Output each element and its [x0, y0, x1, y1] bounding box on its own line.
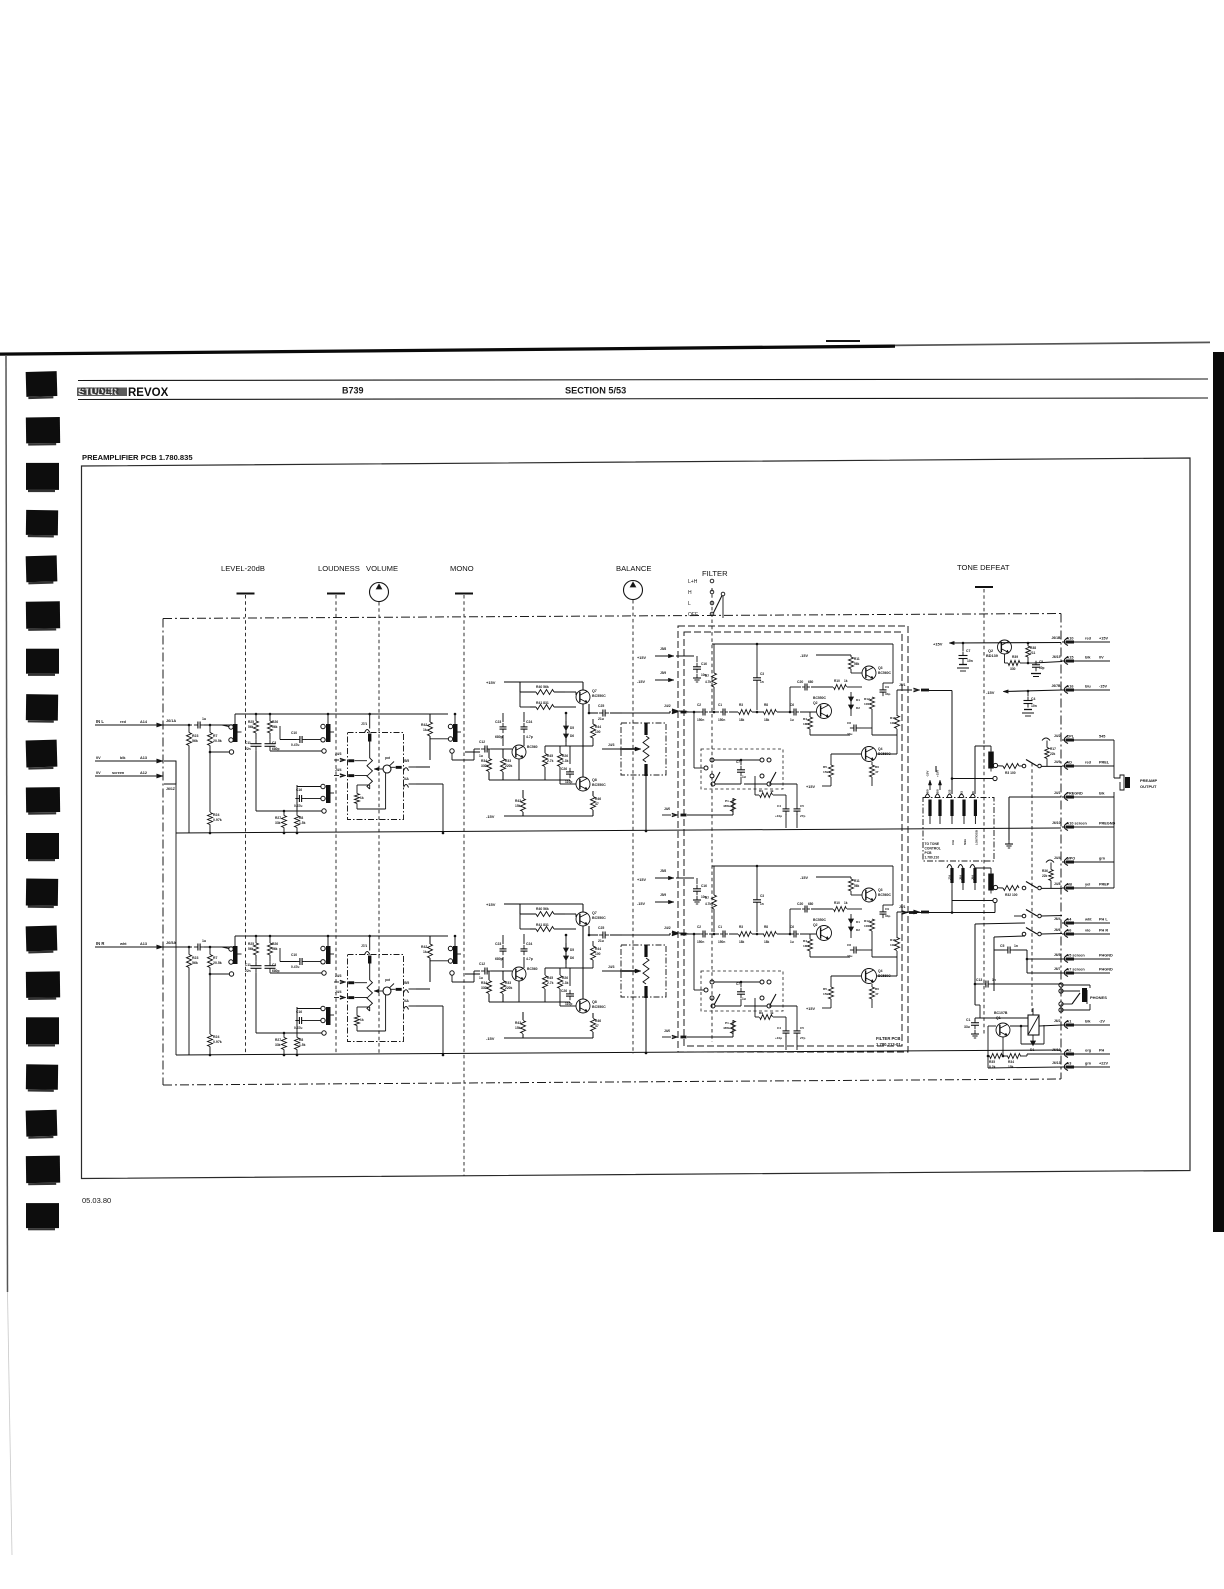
- svg-text:Q2: Q2: [813, 923, 818, 927]
- svg-text:PREGND: PREGND: [1067, 792, 1084, 796]
- svg-text:R25: R25: [248, 720, 254, 724]
- svg-text:J4A: J4A: [403, 777, 410, 781]
- svg-text:A16: A16: [1067, 685, 1074, 689]
- svg-text:18k: 18k: [739, 718, 745, 722]
- svg-text:+15V: +15V: [486, 902, 496, 907]
- svg-text:C6: C6: [971, 791, 975, 795]
- svg-text:27p: 27p: [800, 814, 805, 818]
- svg-text:15k: 15k: [515, 1026, 521, 1030]
- svg-text:C5: C5: [1039, 660, 1043, 664]
- svg-text:C1: C1: [718, 925, 722, 929]
- svg-text:680p: 680p: [272, 747, 280, 751]
- svg-text:1.3k: 1.3k: [562, 759, 569, 763]
- svg-text:R32 100: R32 100: [1005, 893, 1018, 897]
- svg-text:1M: 1M: [803, 944, 808, 948]
- svg-text:R11: R11: [854, 879, 860, 883]
- svg-text:R45: R45: [547, 754, 553, 758]
- svg-text:33p: 33p: [885, 692, 890, 696]
- svg-text:C5: C5: [800, 1026, 804, 1030]
- svg-text:4.7p: 4.7p: [526, 957, 533, 961]
- svg-text:-2V: -2V: [1099, 1020, 1105, 1024]
- svg-text:R41 831: R41 831: [536, 701, 549, 705]
- svg-text:R42: R42: [421, 945, 427, 949]
- svg-text:R6: R6: [875, 987, 879, 991]
- svg-text:C11: C11: [245, 963, 251, 967]
- svg-text:PREP: PREP: [1099, 883, 1110, 887]
- svg-text:0V: 0V: [96, 756, 101, 760]
- svg-text:J4/2: J4/2: [1054, 734, 1061, 738]
- svg-text:J7/1: J7/1: [361, 722, 367, 726]
- svg-text:R23: R23: [192, 734, 198, 738]
- svg-text:C5: C5: [800, 804, 804, 808]
- svg-text:R17: R17: [1050, 747, 1056, 751]
- svg-text:-15V: -15V: [486, 814, 495, 819]
- svg-text:grn: grn: [1099, 857, 1106, 861]
- svg-text:C24: C24: [526, 720, 532, 724]
- svg-text:-15V: -15V: [800, 654, 808, 658]
- svg-text:-15V: -15V: [637, 902, 645, 906]
- svg-text:150n: 150n: [697, 940, 704, 944]
- svg-text:56k: 56k: [854, 884, 860, 888]
- svg-text:C10: C10: [291, 953, 297, 957]
- svg-text:+10p: +10p: [775, 1036, 782, 1040]
- svg-text:R23: R23: [192, 956, 198, 960]
- svg-text:20.5k: 20.5k: [213, 739, 222, 743]
- svg-text:BC550C: BC550C: [592, 694, 606, 698]
- svg-text:100: 100: [595, 952, 601, 956]
- svg-text:R25: R25: [248, 942, 254, 946]
- svg-text:BALANCE: BALANCE: [616, 564, 651, 573]
- svg-text:FILTER PCB: FILTER PCB: [876, 1036, 900, 1041]
- svg-text:56k: 56k: [192, 739, 198, 743]
- svg-text:J5/8: J5/8: [936, 789, 940, 795]
- svg-text:blk: blk: [1099, 792, 1105, 796]
- svg-text:+15V: +15V: [637, 878, 646, 882]
- svg-text:C1: C1: [718, 703, 722, 707]
- svg-text:C16: C16: [296, 788, 302, 792]
- svg-text:R4: R4: [803, 939, 807, 943]
- svg-text:R8: R8: [764, 925, 768, 929]
- svg-text:R3: R3: [739, 925, 743, 929]
- svg-text:R36: R36: [1042, 869, 1048, 873]
- svg-text:C20: C20: [797, 680, 803, 684]
- svg-text:1u: 1u: [742, 775, 746, 779]
- svg-text:R33: R33: [505, 981, 511, 985]
- svg-text:Q7: Q7: [592, 911, 597, 915]
- svg-text:L+H: L+H: [688, 579, 698, 585]
- svg-text:J7/1: J7/1: [361, 944, 367, 948]
- svg-text:AB: AB: [1067, 883, 1073, 887]
- svg-text:1k: 1k: [423, 950, 427, 954]
- svg-text:1u: 1u: [479, 754, 483, 758]
- svg-text:18k: 18k: [764, 940, 770, 944]
- svg-text:05.03.80: 05.03.80: [82, 1196, 111, 1205]
- svg-text:Q8: Q8: [592, 1000, 597, 1004]
- svg-text:BC560: BC560: [527, 745, 538, 749]
- svg-text:+15V: +15V: [933, 642, 943, 647]
- svg-text:J6/2: J6/2: [1054, 1019, 1061, 1023]
- svg-text:21u: 21u: [598, 717, 604, 721]
- svg-text:J4/2: J4/2: [664, 926, 671, 930]
- svg-text:1n: 1n: [760, 902, 764, 906]
- svg-text:IN L: IN L: [96, 719, 104, 724]
- svg-text:J6/5: J6/5: [1054, 953, 1061, 957]
- svg-text:J4/2: J4/2: [664, 704, 671, 708]
- svg-text:680p: 680p: [495, 957, 503, 961]
- svg-text:-15V: -15V: [1099, 685, 1107, 689]
- svg-text:blk: blk: [1085, 656, 1091, 660]
- svg-text:1k: 1k: [360, 1018, 364, 1022]
- svg-text:A13: A13: [140, 756, 147, 760]
- svg-text:C2: C2: [697, 925, 701, 929]
- svg-text:100: 100: [864, 924, 869, 928]
- svg-text:A7 screen: A7 screen: [1067, 968, 1086, 972]
- svg-text:0.47u: 0.47u: [294, 1026, 302, 1030]
- svg-text:AD: AD: [1067, 761, 1073, 765]
- svg-text:BC560C: BC560C: [878, 671, 892, 675]
- svg-text:0.47u: 0.47u: [291, 965, 299, 969]
- svg-text:R26: R26: [562, 976, 568, 980]
- svg-text:wht: wht: [1084, 918, 1092, 922]
- svg-text:+15V: +15V: [1099, 637, 1108, 641]
- svg-text:FILTER: FILTER: [702, 569, 728, 578]
- svg-text:10n: 10n: [967, 659, 973, 663]
- svg-text:+22V: +22V: [1099, 1062, 1108, 1066]
- svg-text:J6/1A: J6/1A: [166, 719, 176, 723]
- svg-text:56k: 56k: [192, 961, 198, 965]
- svg-text:R45: R45: [547, 976, 553, 980]
- svg-text:220k: 220k: [505, 764, 513, 768]
- svg-text:56k: 56k: [272, 947, 278, 951]
- svg-text:A10: A10: [1067, 637, 1074, 641]
- svg-text:-15V: -15V: [926, 771, 930, 777]
- svg-text:red: red: [1085, 637, 1092, 641]
- svg-text:J6/12: J6/12: [1052, 1048, 1061, 1052]
- svg-text:red: red: [120, 720, 127, 724]
- svg-text:4.7k: 4.7k: [705, 680, 711, 684]
- svg-text:R9: R9: [759, 1011, 763, 1015]
- svg-text:C26: C26: [561, 767, 567, 771]
- svg-text:1u: 1u: [202, 939, 206, 943]
- svg-text:R11: R11: [854, 657, 860, 661]
- svg-text:+10p: +10p: [775, 814, 782, 818]
- svg-text:J6/9: J6/9: [926, 789, 930, 795]
- svg-text:4k: 4k: [770, 789, 774, 793]
- svg-text:J4/0: J4/0: [664, 807, 670, 811]
- svg-text:J5/5: J5/5: [403, 759, 409, 763]
- svg-text:10k: 10k: [890, 943, 895, 947]
- svg-text:4.7k: 4.7k: [705, 902, 711, 906]
- svg-text:680p: 680p: [495, 735, 503, 739]
- svg-text:R42: R42: [421, 723, 427, 727]
- svg-text:33p: 33p: [885, 914, 890, 918]
- svg-text:J4/9: J4/9: [1054, 760, 1061, 764]
- svg-text:J6/7B: J6/7B: [1051, 684, 1061, 688]
- svg-text:J4/3: J4/3: [335, 974, 342, 978]
- svg-text:BD139: BD139: [986, 654, 998, 658]
- svg-text:J4/3: J4/3: [608, 743, 615, 747]
- svg-text:15k: 15k: [823, 770, 828, 774]
- svg-text:J5/1: J5/1: [899, 905, 906, 909]
- svg-text:J6/10: J6/10: [1052, 821, 1061, 825]
- svg-text:1n: 1n: [1014, 944, 1018, 948]
- svg-text:BC550C: BC550C: [592, 783, 606, 787]
- svg-text:C4: C4: [777, 804, 781, 808]
- svg-text:R40 56k: R40 56k: [536, 907, 549, 911]
- svg-text:R43: R43: [515, 1021, 521, 1025]
- svg-text:680: 680: [808, 902, 814, 906]
- svg-text:1.3k: 1.3k: [562, 981, 569, 985]
- svg-text:R27: R27: [275, 816, 281, 820]
- svg-text:A10 screen: A10 screen: [1067, 822, 1088, 826]
- svg-text:485k: 485k: [723, 1026, 730, 1030]
- svg-text:A3: A3: [1067, 1062, 1072, 1066]
- svg-text:R7: R7: [213, 956, 218, 960]
- svg-text:C10: C10: [291, 731, 297, 735]
- svg-text:D6: D6: [570, 734, 574, 738]
- svg-text:+15V: +15V: [806, 1007, 815, 1011]
- svg-text:PH R: PH R: [1099, 929, 1108, 933]
- svg-text:R12: R12: [864, 919, 870, 923]
- svg-text:C12: C12: [479, 740, 485, 744]
- svg-text:LOUDNESS: LOUDNESS: [318, 564, 360, 573]
- svg-text:22k: 22k: [1042, 874, 1048, 878]
- svg-text:100: 100: [864, 702, 869, 706]
- svg-text:TO TONE: TO TONE: [925, 842, 940, 846]
- svg-text:J9A: J9A: [971, 875, 975, 880]
- svg-text:C1: C1: [966, 1018, 970, 1022]
- svg-text:C6: C6: [790, 703, 794, 707]
- svg-text:CONTROL: CONTROL: [925, 847, 941, 851]
- svg-text:D1: D1: [856, 920, 860, 924]
- svg-text:10n: 10n: [1031, 704, 1037, 708]
- svg-text:Q3: Q3: [878, 666, 883, 670]
- svg-text:C2: C2: [697, 703, 701, 707]
- svg-text:56k: 56k: [248, 725, 254, 729]
- svg-text:PCB: PCB: [925, 851, 933, 855]
- svg-text:C3: C3: [760, 672, 764, 676]
- svg-text:CPL: CPL: [1067, 735, 1075, 739]
- svg-text:R7: R7: [213, 734, 218, 738]
- svg-text:A13: A13: [140, 942, 147, 946]
- svg-text:Q1: Q1: [996, 1016, 1001, 1020]
- svg-text:1u: 1u: [742, 997, 746, 1001]
- svg-text:0.47u: 0.47u: [291, 743, 299, 747]
- svg-text:A5 screen: A5 screen: [1067, 954, 1086, 958]
- svg-text:Q2: Q2: [813, 701, 818, 705]
- svg-text:J6/13: J6/13: [1052, 1061, 1061, 1065]
- svg-text:4.7p: 4.7p: [526, 735, 533, 739]
- svg-text:screen: screen: [112, 771, 125, 775]
- svg-text:150n: 150n: [718, 940, 725, 944]
- svg-text:blu: blu: [1085, 685, 1091, 689]
- svg-text:H: H: [688, 590, 692, 596]
- svg-text:1n: 1n: [760, 680, 764, 684]
- svg-text:C12: C12: [479, 962, 485, 966]
- svg-text:1k: 1k: [360, 796, 364, 800]
- svg-text:L: L: [688, 601, 691, 607]
- svg-text:5/PO: 5/PO: [1067, 857, 1076, 861]
- svg-text:-15V: -15V: [800, 876, 808, 880]
- svg-text:150n: 150n: [718, 718, 725, 722]
- svg-text:C20: C20: [797, 902, 803, 906]
- svg-text:545: 545: [1099, 735, 1105, 739]
- svg-text:D1: D1: [856, 698, 860, 702]
- svg-text:1M: 1M: [803, 722, 808, 726]
- svg-text:J4/4: J4/4: [1054, 856, 1061, 860]
- svg-text:J4/0: J4/0: [664, 1029, 670, 1033]
- svg-text:2.7k: 2.7k: [547, 759, 554, 763]
- svg-text:C16: C16: [701, 662, 707, 666]
- svg-text:330k: 330k: [481, 986, 489, 990]
- svg-text:J6/1Z: J6/1Z: [166, 787, 176, 791]
- svg-text:15k: 15k: [515, 804, 521, 808]
- svg-text:C5: C5: [1000, 944, 1004, 948]
- svg-text:C16: C16: [701, 884, 707, 888]
- svg-text:C7: C7: [736, 760, 740, 764]
- svg-text:56k: 56k: [854, 662, 860, 666]
- svg-text:C8: C8: [847, 721, 851, 725]
- svg-text:33u: 33u: [964, 1025, 970, 1029]
- svg-text:1u: 1u: [790, 718, 794, 722]
- svg-text:J5/8: J5/8: [660, 869, 666, 873]
- svg-text:R9: R9: [759, 789, 763, 793]
- svg-text:J6/5A: J6/5A: [166, 941, 176, 945]
- svg-text:J5/9: J5/9: [660, 671, 666, 675]
- svg-text:PREAMP: PREAMP: [1140, 778, 1157, 783]
- svg-text:C13: C13: [976, 978, 982, 982]
- svg-text:J4/3: J4/3: [608, 965, 615, 969]
- svg-text:10k: 10k: [890, 721, 895, 725]
- svg-text:C8: C8: [847, 943, 851, 947]
- svg-text:R7: R7: [705, 896, 709, 900]
- svg-text:R15: R15: [890, 938, 896, 942]
- svg-text:+15V: +15V: [486, 680, 496, 685]
- svg-text:VOLUME: VOLUME: [366, 564, 398, 573]
- svg-text:R3: R3: [739, 703, 743, 707]
- svg-text:R8: R8: [299, 816, 303, 820]
- svg-text:PREL: PREL: [1099, 761, 1110, 765]
- svg-text:IN R: IN R: [96, 941, 104, 946]
- svg-text:R8: R8: [764, 703, 768, 707]
- svg-text:+15V: +15V: [637, 656, 646, 660]
- svg-text:C6: C6: [790, 925, 794, 929]
- svg-text:D5: D5: [570, 726, 574, 730]
- svg-text:C7: C7: [736, 982, 740, 986]
- svg-text:A2: A2: [1067, 1049, 1072, 1053]
- svg-text:J6/7: J6/7: [1054, 967, 1061, 971]
- svg-text:BC550C: BC550C: [592, 916, 606, 920]
- svg-text:1u: 1u: [202, 717, 206, 721]
- svg-text:P1: P1: [725, 1021, 729, 1025]
- svg-text:1u: 1u: [790, 940, 794, 944]
- svg-text:TONE DEFEAT: TONE DEFEAT: [957, 563, 1010, 572]
- svg-text:Q7: Q7: [592, 689, 597, 693]
- svg-text:R24: R24: [213, 813, 219, 817]
- svg-text:Q2: Q2: [988, 649, 993, 653]
- svg-text:J4/4: J4/4: [335, 990, 342, 994]
- svg-text:C3: C3: [272, 963, 276, 967]
- svg-text:Q8: Q8: [592, 778, 597, 782]
- svg-text:4k: 4k: [770, 1011, 774, 1015]
- svg-text:wht: wht: [119, 942, 127, 946]
- svg-text:J4/8: J4/8: [1054, 882, 1061, 886]
- svg-text:15k: 15k: [823, 992, 828, 996]
- svg-text:STUDER: STUDER: [80, 386, 119, 397]
- svg-text:110p: 110p: [565, 1002, 572, 1006]
- svg-text:BC560C: BC560C: [878, 893, 892, 897]
- svg-text:R38: R38: [1030, 646, 1036, 650]
- svg-text:1.780.213-01: 1.780.213-01: [876, 1042, 901, 1047]
- svg-text:R6: R6: [875, 765, 879, 769]
- svg-text:J7A: J7A: [948, 875, 952, 880]
- svg-text:C25: C25: [598, 926, 604, 930]
- svg-text:PH: PH: [1099, 1049, 1105, 1053]
- svg-text:R5: R5: [823, 765, 827, 769]
- svg-text:J6/1B: J6/1B: [1051, 636, 1061, 640]
- svg-text:110p: 110p: [565, 780, 572, 784]
- svg-text:R34: R34: [481, 981, 487, 985]
- svg-text:PH L: PH L: [1099, 918, 1108, 922]
- svg-text:PREAMPLIFIER PCB 1.780.835: PREAMPLIFIER PCB 1.780.835: [82, 453, 193, 462]
- svg-text:PHGND: PHGND: [1099, 954, 1113, 958]
- svg-text:MONO: MONO: [450, 564, 474, 573]
- svg-text:50p: 50p: [1039, 666, 1045, 670]
- svg-text:1.5k: 1.5k: [299, 821, 306, 825]
- svg-text:R24: R24: [213, 1035, 219, 1039]
- svg-text:1k: 1k: [423, 728, 427, 732]
- svg-text:+15V: +15V: [806, 785, 815, 789]
- svg-text:R34: R34: [1008, 1060, 1014, 1064]
- svg-text:blk: blk: [120, 756, 126, 760]
- svg-text:1u: 1u: [479, 976, 483, 980]
- svg-text:A25: A25: [948, 789, 952, 795]
- svg-text:680p: 680p: [272, 969, 280, 973]
- svg-text:18k: 18k: [764, 718, 770, 722]
- svg-text:C11: C11: [245, 741, 251, 745]
- svg-text:0V: 0V: [1099, 656, 1104, 660]
- svg-text:J4/1: J4/1: [1054, 791, 1061, 795]
- svg-text:R43: R43: [515, 799, 521, 803]
- svg-text:J5/1: J5/1: [899, 683, 906, 687]
- svg-text:1.780.210: 1.780.210: [925, 856, 940, 860]
- svg-text:C23: C23: [495, 942, 501, 946]
- svg-text:R26: R26: [562, 754, 568, 758]
- svg-text:C4: C4: [1031, 697, 1035, 701]
- svg-text:C9: C9: [885, 907, 889, 911]
- svg-text:22n: 22n: [245, 969, 251, 973]
- svg-text:-15V: -15V: [637, 680, 645, 684]
- svg-text:R33: R33: [505, 759, 511, 763]
- svg-text:R40 56k: R40 56k: [536, 685, 549, 689]
- svg-text:A15: A15: [1067, 656, 1074, 660]
- svg-text:J4/3: J4/3: [335, 752, 342, 756]
- svg-text:J6/15: J6/15: [1052, 655, 1061, 659]
- svg-text:47: 47: [875, 992, 879, 996]
- svg-text:red: red: [1085, 761, 1092, 765]
- svg-text:18k: 18k: [739, 940, 745, 944]
- svg-text:R26: R26: [272, 942, 278, 946]
- svg-text:OFF: OFF: [688, 612, 698, 618]
- svg-text:C3: C3: [760, 894, 764, 898]
- svg-text:SECTION 5/53: SECTION 5/53: [565, 386, 626, 396]
- svg-text:21u: 21u: [598, 939, 604, 943]
- svg-text:org: org: [1085, 1049, 1092, 1053]
- svg-text:47: 47: [595, 802, 599, 806]
- svg-text:R3 100: R3 100: [1005, 771, 1016, 775]
- svg-text:C25: C25: [598, 704, 604, 708]
- svg-text:-15V: -15V: [486, 1036, 495, 1041]
